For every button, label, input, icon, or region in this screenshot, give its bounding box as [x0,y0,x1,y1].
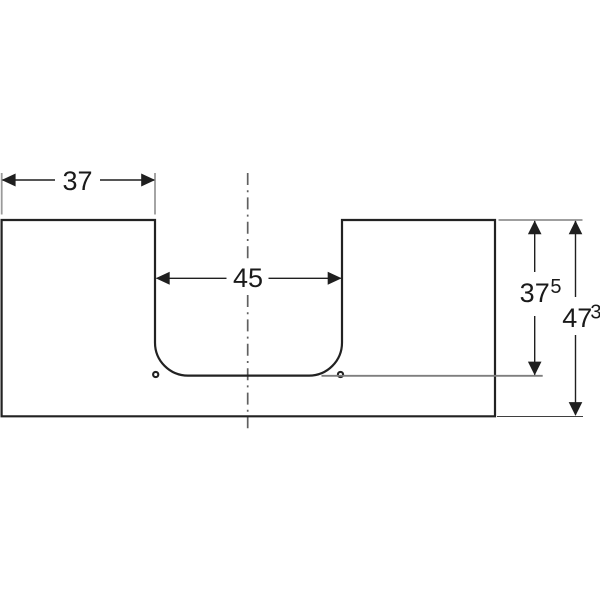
countertop outline with U-cutout [2,220,495,416]
extension line at x=155 [154,173,156,215]
arrow down of 37.5 [528,362,542,376]
svg-text:3: 3 [590,301,600,323]
arrow left of 45 [156,272,170,285]
dimension line 37 [3,179,154,181]
svg-text:47: 47 [562,303,592,333]
arrow down of 47.3 [569,402,583,416]
arrow right of 45 [328,272,342,285]
hole left [153,372,158,377]
arrow right of 37 [141,174,155,187]
extension line top right (y=220) [499,219,583,221]
arrow up of 37.5 [528,221,542,235]
dimension line 45 [157,277,341,279]
extension line bottom right (y=416) [497,415,583,417]
svg-text:5: 5 [550,276,561,298]
svg-text:37: 37 [520,278,550,308]
text mask 45 [227,263,269,293]
text mask 37.5 [518,272,562,316]
center line (vertical dash-dot axis) [247,173,249,428]
extension line left (x=2) [1,173,3,215]
dimension line 47.3 [575,221,577,415]
arrow left of 37 [2,174,16,187]
text mask 37 [55,168,100,192]
svg-text:45: 45 [233,263,263,293]
svg-text:37: 37 [62,166,92,196]
text mask 47.3 [558,297,600,335]
extension line at cutout bottom (y=375.8) [322,375,543,377]
dimension line 37.5 [534,221,536,375]
hole right [338,372,343,377]
arrow up of 47.3 [569,221,583,235]
